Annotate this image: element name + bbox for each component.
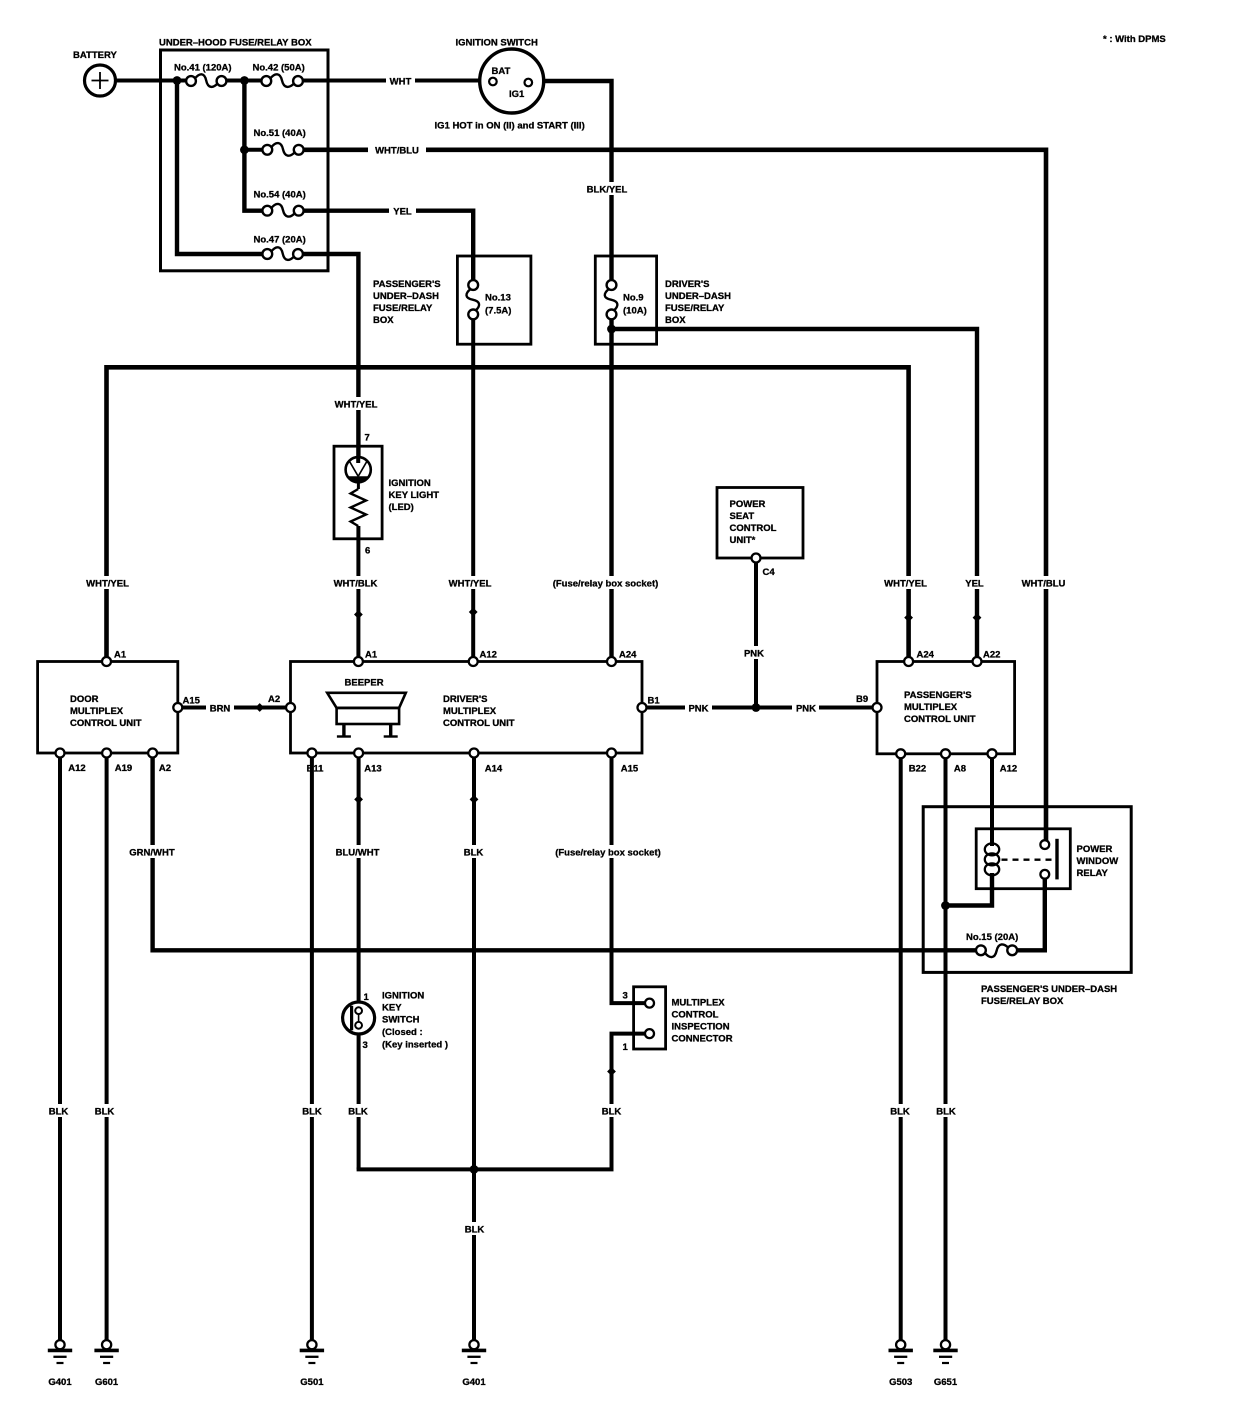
- svg-text:C4: C4: [763, 567, 776, 578]
- ignition key switch: [343, 1002, 375, 1034]
- connector C4 power seat: [752, 554, 761, 563]
- wire WHT fuse42 to ignition switch BAT: [303, 79, 489, 83]
- svg-text:BATTERY: BATTERY: [73, 50, 117, 61]
- svg-text:WHT: WHT: [390, 77, 412, 88]
- svg-text:SWITCH: SWITCH: [382, 1015, 420, 1026]
- svg-text:BLU/WHT: BLU/WHT: [336, 848, 380, 859]
- label BEEPER: [345, 678, 384, 689]
- label pin 1 inspection: [623, 1042, 629, 1053]
- svg-text:INSPECTION: INSPECTION: [672, 1022, 730, 1033]
- label GRN/WHT: [125, 845, 180, 859]
- label No.51 (40A): [254, 128, 306, 139]
- label No.9 (10A): [623, 293, 647, 317]
- wire BLK door A19 to ground G601: [105, 758, 109, 1341]
- svg-text:No.15 (20A): No.15 (20A): [966, 932, 1018, 943]
- junction fuse No.9 output: [607, 325, 616, 334]
- svg-text:PNK: PNK: [744, 649, 764, 660]
- label A12 passenger bottom: [1000, 764, 1017, 775]
- connector B22 passenger: [896, 749, 905, 758]
- svg-text:MULTIPLEX: MULTIPLEX: [672, 998, 726, 1009]
- svg-text:(Key inserted ): (Key inserted ): [382, 1040, 448, 1051]
- svg-text:B22: B22: [909, 764, 926, 775]
- svg-text:BLK: BLK: [348, 1107, 368, 1118]
- connector A24 passenger: [904, 657, 913, 666]
- label A1 driver: [365, 650, 378, 661]
- svg-text:No.54 (40A): No.54 (40A): [254, 190, 306, 201]
- label BLK door A19: [92, 1104, 118, 1118]
- label A2 door: [159, 763, 171, 774]
- connector A14 driver: [470, 749, 479, 758]
- svg-text:1: 1: [364, 992, 370, 1003]
- label IGNITION KEY LIGHT (LED): [389, 478, 440, 513]
- connector A19 door: [102, 749, 111, 758]
- svg-text:No.9: No.9: [623, 293, 644, 304]
- fuse No.54: [262, 204, 303, 217]
- connector A15 door: [173, 703, 182, 712]
- svg-text:CONTROL: CONTROL: [730, 523, 777, 534]
- svg-text:RELAY: RELAY: [1077, 868, 1109, 879]
- battery: [85, 65, 116, 96]
- junction fuse51 branch: [240, 145, 249, 154]
- svg-text:A12: A12: [480, 650, 497, 661]
- svg-text:BOX: BOX: [665, 315, 686, 326]
- label G503: [889, 1377, 912, 1388]
- label B1: [648, 696, 661, 707]
- connector A1 door: [102, 657, 111, 666]
- label PNK right: [792, 701, 819, 715]
- fuse No.13: [466, 280, 479, 319]
- junction bottom bus A14: [470, 1165, 479, 1174]
- wire relay coil bottom to A8 junction: [946, 873, 993, 906]
- svg-text:G401: G401: [48, 1377, 72, 1388]
- svg-text:(Closed :: (Closed :: [382, 1027, 423, 1038]
- svg-text:A24: A24: [619, 650, 637, 661]
- label A8: [954, 764, 966, 775]
- label C4: [763, 567, 776, 578]
- svg-text:SEAT: SEAT: [730, 511, 755, 522]
- note with DPMS: [1103, 34, 1166, 45]
- ignition key light box: [334, 446, 382, 539]
- passenger's under-dash fuse/relay box (top): [457, 256, 531, 344]
- svg-text:WHT/YEL: WHT/YEL: [335, 400, 378, 411]
- wire driver A15 to inspection connector pin 3: [612, 758, 646, 1004]
- connector A12 driver: [469, 657, 478, 666]
- svg-text:(Fuse/relay box socket): (Fuse/relay box socket): [553, 579, 659, 590]
- connector B1 driver: [638, 703, 647, 712]
- label BLK A14: [461, 845, 487, 859]
- fuse No.47: [262, 247, 303, 260]
- ignition switch SW1: [480, 49, 544, 113]
- svg-text:PASSENGER'S UNDER–DASH: PASSENGER'S UNDER–DASH: [981, 984, 1117, 995]
- label IG1 HOT note: [435, 121, 585, 132]
- wire BLK key switch down: [357, 1034, 361, 1170]
- label pin 6: [365, 546, 370, 557]
- wire BLK driver B11 to ground G501: [310, 758, 314, 1341]
- label G601: [95, 1377, 119, 1388]
- label No.41 (120A): [174, 63, 232, 74]
- connector A8 passenger: [941, 749, 950, 758]
- passenger's multiplex control unit box: [877, 662, 1015, 754]
- junction in fuse box mid: [240, 76, 249, 85]
- svg-text:1: 1: [623, 1042, 629, 1053]
- label A19 door: [115, 763, 132, 774]
- ground G651: [933, 1340, 957, 1363]
- svg-text:6: 6: [365, 546, 370, 557]
- svg-text:G601: G601: [95, 1377, 119, 1388]
- svg-text:CONTROL: CONTROL: [672, 1010, 719, 1021]
- svg-text:IGNITION: IGNITION: [389, 478, 431, 489]
- svg-text:G503: G503: [889, 1377, 912, 1388]
- svg-text:YEL: YEL: [393, 207, 412, 218]
- wire BLK/YEL ignition IG1 down to fuse No.9: [532, 81, 611, 280]
- svg-text:UNDER–DASH: UNDER–DASH: [665, 291, 731, 302]
- ground G501: [300, 1340, 324, 1363]
- svg-text:B11: B11: [307, 764, 325, 775]
- svg-text:No.41 (120A): No.41 (120A): [174, 63, 232, 74]
- label WHT/YEL door A1: [81, 576, 135, 590]
- relay contact: [1002, 839, 1058, 880]
- svg-text:IG1: IG1: [509, 89, 525, 100]
- label A1 door: [114, 650, 127, 661]
- label fuse/relay box socket (upper): [551, 576, 661, 590]
- label WHT: [386, 74, 415, 88]
- wire WHT/YEL fuse13 down to A12 driver: [471, 319, 475, 657]
- svg-text:No.47 (20A): No.47 (20A): [254, 235, 306, 246]
- wire LED to resistor: [357, 481, 360, 489]
- wire fuse No.9 branch to A22 passenger: [612, 329, 978, 657]
- svg-text:3: 3: [363, 1040, 368, 1051]
- wire BRN door A15 to driver A2: [182, 706, 286, 710]
- label A13: [364, 764, 381, 775]
- splice on WHT/YEL A24 wire: [904, 613, 913, 622]
- svg-text:BLK: BLK: [95, 1107, 115, 1118]
- connector A12 passenger: [988, 749, 997, 758]
- label A12 driver: [480, 650, 497, 661]
- label IG1: [509, 89, 525, 100]
- label BLK A13: [345, 1104, 371, 1118]
- label BLU/WHT: [331, 845, 386, 859]
- label DRIVER'S UNDER-DASH FUSE/RELAY BOX: [665, 279, 731, 326]
- svg-text:7: 7: [365, 433, 370, 444]
- under-hood fuse/relay box: [161, 50, 329, 271]
- svg-text:UNDER–HOOD FUSE/RELAY BOX: UNDER–HOOD FUSE/RELAY BOX: [159, 38, 312, 49]
- label No.42 (50A): [253, 63, 305, 74]
- svg-text:UNDER–DASH: UNDER–DASH: [373, 291, 439, 302]
- driver's under-dash fuse/relay box: [595, 256, 656, 344]
- label POWER WINDOW RELAY: [1077, 844, 1119, 879]
- ground G601: [94, 1340, 118, 1363]
- svg-text:POWER: POWER: [730, 499, 766, 510]
- label BAT: [492, 66, 511, 77]
- svg-text:WINDOW: WINDOW: [1077, 856, 1119, 867]
- svg-text:PASSENGER'S: PASSENGER'S: [373, 279, 441, 290]
- label WHT/YEL A12 driver: [446, 576, 501, 590]
- label pin 7: [365, 433, 370, 444]
- connector A2 door: [148, 749, 157, 758]
- svg-text:PASSENGER'S: PASSENGER'S: [904, 690, 972, 701]
- wire bottom bus: [357, 1167, 614, 1171]
- label PNK C4: [742, 646, 768, 660]
- label No.54 (40A): [254, 190, 306, 201]
- svg-text:B1: B1: [648, 696, 661, 707]
- label A24 passenger: [917, 650, 935, 661]
- label YEL passenger A22: [961, 576, 988, 590]
- label A15 door: [183, 696, 201, 707]
- svg-text:BLK: BLK: [464, 848, 484, 859]
- connector A12 door: [56, 749, 65, 758]
- label UNDER-HOOD FUSE/RELAY BOX: [159, 38, 312, 49]
- connector A22 passenger: [973, 657, 982, 666]
- ground G401 left: [48, 1340, 72, 1363]
- wire passenger A12 to relay coil: [990, 759, 994, 846]
- svg-text:A24: A24: [917, 650, 935, 661]
- svg-text:WHT/YEL: WHT/YEL: [86, 579, 129, 590]
- wire BLK passenger B22 to ground G503: [899, 759, 903, 1341]
- svg-text:A14: A14: [485, 764, 503, 775]
- label MULTIPLEX CONTROL INSPECTION CONNECTOR: [672, 998, 733, 1045]
- splice on BRN wire: [255, 703, 264, 712]
- svg-text:BOX: BOX: [373, 315, 394, 326]
- svg-text:DOOR: DOOR: [70, 694, 99, 705]
- fuse No.42: [261, 74, 303, 87]
- junction in fuse box left: [173, 76, 182, 85]
- wire PNK driver B1 to passenger B9: [647, 706, 873, 710]
- wire PNK power seat C4 down: [754, 563, 758, 708]
- svg-text:IGNITION: IGNITION: [382, 991, 424, 1002]
- label PASSENGER'S UNDER-DASH FUSE/RELAY BOX (bottom): [981, 984, 1117, 1007]
- svg-text:WHT/BLK: WHT/BLK: [334, 579, 378, 590]
- label BLK B22: [887, 1104, 913, 1118]
- junction relay coil to A8: [941, 901, 950, 910]
- label WHT/BLK: [331, 576, 383, 590]
- label fuse/relay box socket (lower): [553, 845, 663, 859]
- label pin 1 key switch: [364, 992, 370, 1003]
- connector A2 driver: [286, 703, 295, 712]
- label No.13 (7.5A): [485, 293, 511, 317]
- svg-text:A12: A12: [68, 763, 85, 774]
- label BLK A8: [933, 1104, 959, 1118]
- LED in ignition key light: [346, 457, 371, 482]
- label BRN: [206, 701, 234, 715]
- label BLK door A12: [46, 1104, 72, 1118]
- svg-text:(Fuse/relay box socket): (Fuse/relay box socket): [555, 848, 661, 859]
- wire BLK door A12 to ground G401: [58, 758, 62, 1341]
- label B9: [856, 694, 868, 705]
- svg-text:CONTROL UNIT: CONTROL UNIT: [904, 714, 976, 725]
- svg-text:A2: A2: [159, 763, 171, 774]
- junction PNK C4: [752, 703, 761, 712]
- wire WHT/BLU fuse51 right long run and down to relay contact: [304, 150, 1046, 841]
- wire WHT/YEL bus door A1 to passenger A24: [107, 367, 909, 657]
- wire YEL fuse54 to fuse No.13: [304, 211, 474, 281]
- svg-text:No.13: No.13: [485, 293, 511, 304]
- svg-text:* : With DPMS: * : With DPMS: [1103, 34, 1166, 45]
- splice on WHT/BLK wire: [354, 610, 363, 619]
- label WHT/BLU vertical: [1016, 576, 1072, 590]
- label WHT/YEL on key light feed: [331, 397, 386, 411]
- label BLK/YEL: [582, 182, 632, 196]
- svg-text:GRN/WHT: GRN/WHT: [129, 848, 175, 859]
- label A24 driver: [619, 650, 637, 661]
- connector B11 driver: [307, 749, 316, 758]
- label pin 3 key switch: [363, 1040, 368, 1051]
- svg-text:BLK: BLK: [890, 1107, 910, 1118]
- label G401 mid: [462, 1377, 486, 1388]
- svg-text:A1: A1: [365, 650, 378, 661]
- svg-text:A8: A8: [954, 764, 966, 775]
- svg-text:G501: G501: [300, 1377, 324, 1388]
- label BLK B11: [299, 1104, 325, 1118]
- connector pin 1 inspection: [645, 1029, 654, 1038]
- wire BLK driver A14 to ground G401: [472, 758, 476, 1341]
- connector A1 driver: [354, 657, 363, 666]
- label PASSENGER'S MULTIPLEX CONTROL UNIT: [904, 690, 976, 725]
- wire battery to fuse box: [115, 79, 186, 83]
- svg-text:BLK/YEL: BLK/YEL: [587, 185, 628, 196]
- label No.47 (20A): [254, 235, 306, 246]
- svg-text:A15: A15: [183, 696, 201, 707]
- power window relay box: [976, 829, 1070, 889]
- connector B9 passenger: [873, 703, 882, 712]
- label A15 driver bottom: [621, 764, 639, 775]
- svg-text:WHT/BLU: WHT/BLU: [375, 146, 419, 157]
- splice on WHT/YEL A12 wire: [469, 608, 478, 617]
- svg-text:BLK: BLK: [602, 1107, 622, 1118]
- svg-text:BAT: BAT: [492, 66, 511, 77]
- svg-text:IGNITION SWITCH: IGNITION SWITCH: [456, 38, 538, 49]
- driver's multiplex control unit box: [291, 662, 643, 754]
- svg-text:(LED): (LED): [389, 502, 414, 513]
- svg-text:MULTIPLEX: MULTIPLEX: [904, 702, 958, 713]
- label PASSENGER'S UNDER-DASH FUSE/RELAY BOX (top): [373, 279, 441, 326]
- label PNK left: [685, 701, 712, 715]
- svg-text:No.51 (40A): No.51 (40A): [254, 128, 306, 139]
- ground G503: [889, 1340, 913, 1363]
- wire WHT/BLK key light pin6 down to A1 driver: [356, 526, 360, 657]
- wire fuse box left feeder to fuse47: [177, 81, 263, 255]
- svg-text:A2: A2: [268, 694, 280, 705]
- fuse No.15: [976, 944, 1017, 957]
- wire feeder branch to fuse51: [244, 148, 262, 152]
- svg-text:B9: B9: [856, 694, 868, 705]
- svg-text:No.42 (50A): No.42 (50A): [253, 63, 305, 74]
- label YEL: [389, 204, 416, 218]
- multiplex control inspection connector box: [634, 987, 666, 1049]
- svg-text:A15: A15: [621, 764, 639, 775]
- label B11: [307, 764, 325, 775]
- svg-text:A22: A22: [983, 650, 1000, 661]
- svg-text:MULTIPLEX: MULTIPLEX: [443, 706, 497, 717]
- label IGNITION SWITCH: [456, 38, 538, 49]
- wire BLU/WHT driver A13 to ignition key switch: [357, 758, 361, 1003]
- label BLK A15 run: [598, 1104, 624, 1118]
- splice on BLK A14 wire: [470, 795, 479, 804]
- power seat control unit box: [717, 488, 803, 559]
- svg-text:A19: A19: [115, 763, 132, 774]
- label A14: [485, 764, 503, 775]
- passenger's under-dash fuse/relay box (bottom outer): [923, 807, 1131, 973]
- connector A24 driver: [607, 657, 616, 666]
- wire GRN/WHT door A2 to fuse No.15: [153, 758, 977, 951]
- svg-text:PNK: PNK: [688, 704, 708, 715]
- svg-text:UNIT*: UNIT*: [730, 535, 756, 546]
- wire fuse box mid feeder to fuse54: [244, 81, 262, 211]
- svg-text:YEL: YEL: [965, 579, 984, 590]
- label WHT/BLU: [368, 143, 426, 157]
- svg-text:IG1 HOT in ON (II) and START (: IG1 HOT in ON (II) and START (III): [435, 121, 585, 132]
- label IGNITION KEY SWITCH (Closed : Key inserted): [382, 991, 448, 1051]
- label A2 driver left: [268, 694, 280, 705]
- svg-text:WHT/BLU: WHT/BLU: [1022, 579, 1066, 590]
- beeper in driver's multiplex unit: [327, 693, 406, 737]
- connector A15 driver: [607, 749, 616, 758]
- splice on BLU/WHT A13 wire: [354, 795, 363, 804]
- wire BLK/YEL fuse No.9 down to A24 driver: [609, 319, 613, 657]
- ground G401 mid: [462, 1340, 486, 1363]
- svg-text:(10A): (10A): [623, 306, 647, 317]
- svg-text:CONTROL UNIT: CONTROL UNIT: [70, 718, 142, 729]
- fuse No.51: [262, 143, 303, 156]
- svg-text:BLK: BLK: [302, 1107, 322, 1118]
- label G501: [300, 1377, 324, 1388]
- fuse No.9: [605, 280, 618, 319]
- svg-text:PNK: PNK: [796, 704, 816, 715]
- relay coil: [985, 843, 999, 875]
- svg-text:FUSE/RELAY: FUSE/RELAY: [665, 303, 725, 314]
- svg-text:BLK: BLK: [49, 1107, 69, 1118]
- svg-text:A1: A1: [114, 650, 127, 661]
- svg-text:FUSE/RELAY: FUSE/RELAY: [373, 303, 433, 314]
- label DRIVER'S MULTIPLEX CONTROL UNIT: [443, 694, 515, 729]
- wire fuse47 to ignition key light: [303, 254, 358, 458]
- connector A13 driver: [354, 749, 363, 758]
- svg-text:CONTROL UNIT: CONTROL UNIT: [443, 718, 515, 729]
- svg-text:3: 3: [623, 991, 628, 1002]
- svg-text:KEY LIGHT: KEY LIGHT: [389, 490, 440, 501]
- label G401 left: [48, 1377, 72, 1388]
- label G651: [934, 1377, 958, 1388]
- svg-text:BEEPER: BEEPER: [345, 678, 384, 689]
- wire fuse41 to fuse42: [227, 79, 262, 83]
- svg-text:G651: G651: [934, 1377, 958, 1388]
- resistor in ignition key light: [351, 489, 366, 526]
- label No.15 (20A): [966, 932, 1018, 943]
- svg-text:FUSE/RELAY BOX: FUSE/RELAY BOX: [981, 996, 1064, 1007]
- wire BLK passenger A8 to ground G651: [944, 759, 948, 1341]
- label A22 passenger: [983, 650, 1000, 661]
- svg-text:BRN: BRN: [210, 704, 231, 715]
- connector pin 3 inspection: [645, 999, 654, 1008]
- svg-text:DRIVER'S: DRIVER'S: [443, 694, 488, 705]
- svg-text:BLK: BLK: [936, 1107, 956, 1118]
- svg-text:POWER: POWER: [1077, 844, 1113, 855]
- svg-text:WHT/YEL: WHT/YEL: [884, 579, 927, 590]
- svg-text:A12: A12: [1000, 764, 1017, 775]
- label A12 door: [68, 763, 85, 774]
- svg-text:KEY: KEY: [382, 1003, 402, 1014]
- fuse No.41: [186, 74, 226, 87]
- door multiplex control unit box: [38, 662, 178, 754]
- label B22: [909, 764, 926, 775]
- splice below inspection connector: [607, 1067, 616, 1076]
- svg-text:CONNECTOR: CONNECTOR: [672, 1034, 733, 1045]
- svg-text:MULTIPLEX: MULTIPLEX: [70, 706, 124, 717]
- label DOOR MULTIPLEX CONTROL UNIT: [70, 694, 142, 729]
- label BATTERY: [73, 50, 117, 61]
- svg-text:DRIVER'S: DRIVER'S: [665, 279, 710, 290]
- svg-text:BLK: BLK: [465, 1225, 485, 1236]
- label pin 3 inspection: [623, 991, 628, 1002]
